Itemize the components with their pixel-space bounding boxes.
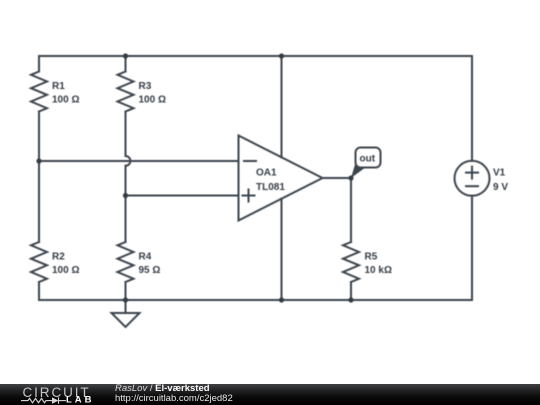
svg-text:LAB: LAB (66, 394, 95, 405)
resistor R5 (343, 178, 359, 300)
svg-text:100 Ω: 100 Ω (52, 95, 79, 106)
wire node out down to R5 (350, 178, 352, 242)
svg-text:95 Ω: 95 Ω (139, 265, 161, 276)
voltage source V1 (455, 56, 490, 300)
svg-text:out: out (360, 154, 376, 165)
junction node top rail / R3 (123, 53, 128, 58)
wire op-amp V+ pin to top rail (281, 56, 283, 157)
ground (112, 300, 140, 327)
svg-text:R3: R3 (139, 81, 152, 92)
svg-text:100 Ω: 100 Ω (52, 265, 79, 276)
junction node A on left rail (36, 158, 41, 163)
resistor R3 (118, 56, 134, 156)
svg-text:R1: R1 (52, 81, 65, 92)
wire node A to inverting input (39, 160, 239, 162)
svg-text:R4: R4 (139, 252, 152, 263)
junction node out (348, 175, 353, 180)
wire op-amp output to node out (323, 177, 352, 179)
junction node ground / bottom rail (123, 297, 128, 302)
junction node op-amp V- / bottom rail (279, 297, 284, 302)
op-amp inverting pin mark (244, 160, 256, 162)
wire op-amp V- pin to bottom rail (281, 199, 283, 300)
svg-text:R5: R5 (365, 252, 378, 263)
wire top rail (39, 55, 472, 57)
svg-text:100 Ω: 100 Ω (139, 95, 166, 106)
credit text (115, 384, 233, 404)
junction node B (123, 193, 128, 198)
svg-text:9 V: 9 V (493, 182, 508, 193)
resistor R4 (118, 196, 134, 301)
wire hop to node B (125, 166, 127, 196)
wire node B to non-inverting input (126, 195, 239, 197)
svg-text:OA1: OA1 (256, 168, 277, 179)
out flag box (351, 148, 381, 179)
CircuitLab logo (21, 385, 101, 405)
wire bottom rail (39, 299, 472, 301)
junction node top rail / op-amp V+ (279, 53, 284, 58)
svg-text:V1: V1 (493, 168, 506, 179)
footer bar (0, 384, 540, 405)
op-amp non-inverting pin mark (243, 190, 255, 202)
svg-text:10 kΩ: 10 kΩ (365, 265, 392, 276)
junction node R5 / bottom rail (348, 297, 353, 302)
resistor R1 (31, 56, 47, 161)
op-amp U1 OA1 triangle (239, 136, 323, 221)
resistor R2 (31, 161, 47, 300)
wire hop over inverting wire (126, 156, 131, 166)
svg-text:R2: R2 (52, 252, 65, 263)
svg-text:TL081: TL081 (256, 182, 285, 193)
